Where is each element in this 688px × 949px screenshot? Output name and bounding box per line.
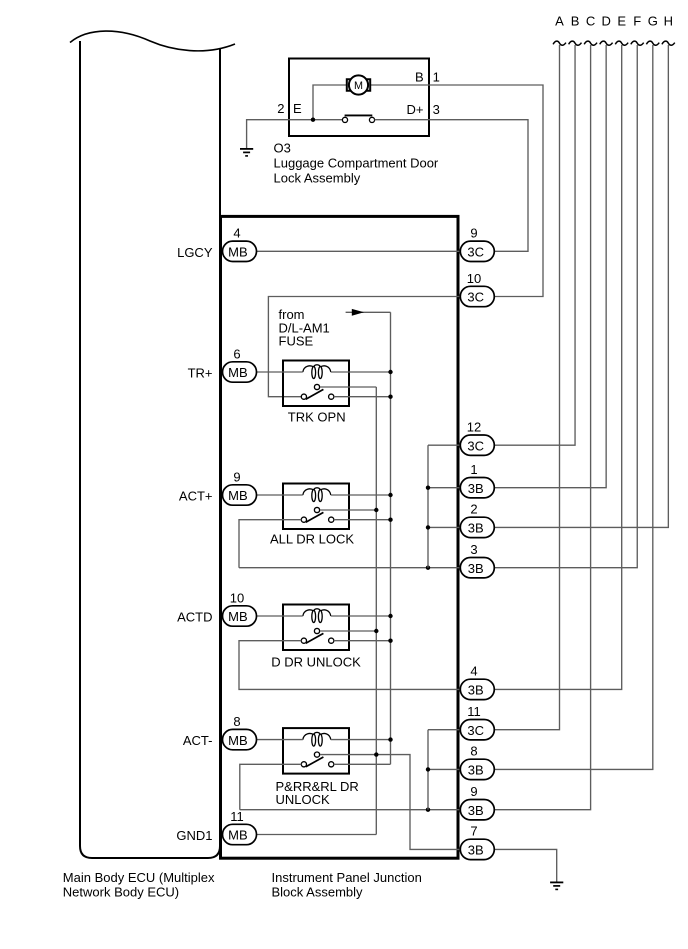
fuse feed vertical bus <box>390 312 392 764</box>
connector 3B pin 4 <box>460 679 494 699</box>
connector 3C pin 9 <box>460 241 494 261</box>
svg-text:3B: 3B <box>468 843 484 858</box>
svg-text:MB: MB <box>228 609 248 624</box>
wire pin D+ to connector 3C-9 <box>429 120 528 252</box>
connector 3C pin 12 <box>460 435 494 455</box>
wire lock output row to 3B-3 <box>239 567 461 569</box>
junction dot group/3B-2 <box>426 525 430 529</box>
break symbol on wire F <box>631 41 644 45</box>
svg-text:ACTD: ACTD <box>177 610 212 625</box>
wire 3B/3C pin to net F <box>494 45 637 568</box>
wire ALL DR LOCK output to 3B-3 row <box>239 520 302 568</box>
svg-text:12: 12 <box>467 420 481 435</box>
wire D DR UNLOCK right contact to fuse bus <box>334 640 391 642</box>
wire GND1 MB-11 to GND1 bus <box>257 834 377 836</box>
wire ACTD MB-10 to D DR UNLOCK coil <box>257 615 303 617</box>
wire TRK OPN pivot to GND1 bus <box>320 386 376 388</box>
break symbol on wire B <box>569 41 582 45</box>
relay D DR UNLOCK coil <box>303 609 331 623</box>
connector MB pin 9 (ACT+) <box>223 485 257 505</box>
wire motor left to node E <box>313 85 347 120</box>
relay D DR UNLOCK switch <box>301 628 334 643</box>
svg-text:MB: MB <box>228 245 248 260</box>
connector 3B pin 8 <box>460 759 494 779</box>
junction dot P&RR&RL pivot/GND1 <box>374 752 378 756</box>
svg-text:MB: MB <box>228 488 248 503</box>
wire 3B/3C pin to net C <box>494 45 590 810</box>
connector 3B pin 7 <box>460 839 494 859</box>
svg-text:G: G <box>648 14 658 29</box>
junction dot D DR UNLOCK pivot/GND1 <box>374 629 378 633</box>
svg-text:Luggage Compartment Door: Luggage Compartment Door <box>274 155 439 170</box>
wire P&RR&RL output to 3B-9 row <box>240 764 302 809</box>
wire P&RR&RL right contact to fuse bus <box>334 763 391 765</box>
wire group vertical to 3C-11 <box>428 729 461 731</box>
junction dot D DR UNLOCK coil/fuse <box>388 614 392 618</box>
connector MB pin 4 (LGCY) <box>223 241 257 261</box>
svg-text:10: 10 <box>467 271 481 286</box>
relay P&amp;RR&amp;RL DR UNLOCK coil <box>303 732 331 746</box>
junction dot group/3B-1 <box>426 486 430 490</box>
svg-text:B: B <box>415 69 424 84</box>
wire TR+ MB-6 to TRK OPN coil <box>257 371 303 373</box>
svg-text:3B: 3B <box>468 683 484 698</box>
wire P&RR&RL coil to fuse bus <box>331 739 391 741</box>
svg-text:8: 8 <box>470 744 477 759</box>
svg-text:4: 4 <box>233 226 240 241</box>
connector 3B pin 9 <box>460 800 494 820</box>
svg-text:4: 4 <box>470 664 477 679</box>
svg-text:1: 1 <box>433 69 440 84</box>
svg-text:Main Body ECU (Multiplex: Main Body ECU (Multiplex <box>63 870 215 885</box>
svg-text:3C: 3C <box>467 290 484 305</box>
svg-text:ACT+: ACT+ <box>179 489 213 504</box>
wire 3B/3C pin to net D <box>494 45 606 488</box>
wire 3C-10 to TRK OPN relay contact <box>268 297 459 397</box>
wire D DR UNLOCK pivot to GND1 bus <box>320 630 376 632</box>
wire ALL DR LOCK coil to fuse bus <box>331 494 391 496</box>
relay ALL DR LOCK coil <box>303 488 331 502</box>
wire 3B/3C pin to net B <box>494 45 575 445</box>
junction dot ALL DR LOCK pivot/GND1 <box>374 508 378 512</box>
svg-text:E: E <box>617 14 626 29</box>
svg-text:Lock Assembly: Lock Assembly <box>274 170 361 185</box>
svg-text:3B: 3B <box>468 521 484 536</box>
GND1 bus vertical <box>375 387 377 835</box>
wire D DR UNLOCK output to 3B-4 <box>239 641 461 690</box>
svg-text:GND1: GND1 <box>176 828 212 843</box>
junction dot TRK OPN contact/fuse <box>388 395 392 399</box>
svg-text:D DR UNLOCK: D DR UNLOCK <box>271 654 361 669</box>
connector MB pin 8 (ACT-) <box>223 729 257 749</box>
connector MB pin 10 (ACTD) <box>223 606 257 626</box>
wire 3B/3C pin to net A <box>494 45 559 730</box>
svg-text:3: 3 <box>470 542 477 557</box>
wire motor to pin B inside box <box>370 84 429 86</box>
ground symbol at lock assembly <box>240 149 253 156</box>
svg-text:3: 3 <box>433 102 440 117</box>
svg-text:Instrument Panel Junction: Instrument Panel Junction <box>272 870 422 885</box>
junction dot ALL DR LOCK coil/fuse <box>388 493 392 497</box>
break symbol on wire H <box>662 41 675 45</box>
relay TRK OPN switch <box>301 384 334 399</box>
junction dot lock output row <box>426 566 430 570</box>
svg-text:3B: 3B <box>468 481 484 496</box>
relay P&amp;RR&amp;RL DR UNLOCK switch <box>301 752 334 767</box>
wire 3B/3C pin to net E <box>494 45 621 689</box>
junction dot group/3B-8 <box>426 767 430 771</box>
wire TRK OPN coil to fuse bus <box>331 371 391 373</box>
svg-text:3C: 3C <box>467 723 484 738</box>
connector 3C pin 10 <box>460 286 494 306</box>
svg-text:TRK OPN: TRK OPN <box>288 409 346 424</box>
chassis ground symbol bottom <box>550 882 563 889</box>
connector 3B pin 3 <box>460 558 494 578</box>
break symbol on wire A <box>553 41 566 45</box>
wire pin E to ground <box>247 120 289 149</box>
luggage door courtesy switch <box>342 115 374 122</box>
main body ECU outline (wavy-top box) <box>80 41 220 858</box>
break symbol on wire D <box>600 41 613 45</box>
relay TRK OPN coil <box>303 365 331 379</box>
wire P&RR&RL pivot to 3B-7 <box>320 755 461 850</box>
wire 3B/3C pin to net G <box>494 45 653 769</box>
wire ALL DR LOCK pivot to GND1 bus <box>320 509 376 511</box>
node E junction dot <box>311 118 315 122</box>
junction dot D DR UNLOCK contact/fuse <box>388 639 392 643</box>
wire ACT- MB-8 to P&RR&RL coil <box>257 739 303 741</box>
svg-text:9: 9 <box>470 784 477 799</box>
svg-text:3B: 3B <box>468 763 484 778</box>
svg-text:3B: 3B <box>468 803 484 818</box>
svg-text:2: 2 <box>470 502 477 517</box>
svg-text:3B: 3B <box>468 561 484 576</box>
relay TRK OPN box <box>283 361 349 407</box>
svg-text:9: 9 <box>233 469 240 484</box>
svg-text:C: C <box>586 14 595 29</box>
svg-text:B: B <box>571 14 580 29</box>
luggage compartment door lock assembly box O3 <box>289 59 429 137</box>
wire group vertical to 3B-2 <box>428 526 461 528</box>
svg-text:M: M <box>354 80 363 92</box>
svg-text:FUSE: FUSE <box>279 334 314 349</box>
relay ALL DR LOCK box <box>283 484 349 530</box>
svg-text:7: 7 <box>470 824 477 839</box>
wire group vertical to 3B-1 <box>428 487 461 489</box>
svg-text:UNLOCK: UNLOCK <box>276 792 331 807</box>
svg-text:6: 6 <box>233 346 240 361</box>
wire pin B to connector 3C-10 <box>429 85 543 297</box>
unlock output group vertical <box>427 730 429 810</box>
svg-text:3C: 3C <box>467 438 484 453</box>
instrument panel junction block outline <box>221 216 459 858</box>
wire node E row inside box <box>289 119 342 121</box>
wire switch to pin D+ <box>375 119 429 121</box>
svg-text:2: 2 <box>277 101 284 116</box>
lock output group vertical <box>427 445 429 568</box>
break symbol on wire C <box>584 41 597 45</box>
wire 3B-7 to chassis ground <box>494 849 556 882</box>
svg-text:11: 11 <box>467 704 481 719</box>
wire ALL DR LOCK right contact to fuse bus <box>334 519 391 521</box>
connector 3B pin 1 <box>460 478 494 498</box>
svg-text:O3: O3 <box>274 140 291 155</box>
svg-text:8: 8 <box>233 714 240 729</box>
svg-text:1: 1 <box>470 462 477 477</box>
svg-text:TR+: TR+ <box>188 366 213 381</box>
junction dot TRK OPN coil/fuse <box>388 370 392 374</box>
relay P&amp;RR&amp;RL DR UNLOCK box <box>283 728 349 774</box>
motor M in lock assembly <box>347 75 370 94</box>
svg-text:LGCY: LGCY <box>177 245 213 260</box>
connector MB pin 6 (TR+) <box>223 362 257 382</box>
wire unlock output row to 3B-9 <box>240 809 461 811</box>
wire ACT+ MB-9 to ALL DR LOCK coil <box>257 494 303 496</box>
connector 3C pin 11 <box>460 720 494 740</box>
wire group vertical to 3C-12 <box>428 444 461 446</box>
junction dot P&RR&RL coil/fuse <box>388 737 392 741</box>
svg-text:A: A <box>555 14 564 29</box>
svg-text:MB: MB <box>228 365 248 380</box>
svg-text:F: F <box>633 14 641 29</box>
svg-text:E: E <box>293 101 302 116</box>
junction dot unlock output row <box>426 808 430 812</box>
relay D DR UNLOCK box <box>283 605 349 651</box>
wire D DR UNLOCK coil to fuse bus <box>331 615 391 617</box>
connector 3B pin 2 <box>460 517 494 537</box>
junction dot ALL DR LOCK contact/fuse <box>388 518 392 522</box>
svg-text:H: H <box>664 14 673 29</box>
svg-text:3C: 3C <box>467 245 484 260</box>
connector MB pin 11 (GND1) <box>223 824 257 844</box>
wire LGCY row MB-4 to 3C-9 <box>257 250 460 252</box>
break symbol on wire G <box>646 41 659 45</box>
svg-text:MB: MB <box>228 828 248 843</box>
svg-text:Block Assembly: Block Assembly <box>272 885 364 900</box>
svg-text:D: D <box>601 14 610 29</box>
break symbol on wire E <box>615 41 628 45</box>
wire TRK OPN right contact to fuse bus <box>334 396 391 398</box>
wire group vertical to 3B-8 <box>428 768 461 770</box>
svg-text:9: 9 <box>470 226 477 241</box>
svg-text:D+: D+ <box>407 102 424 117</box>
svg-text:ACT-: ACT- <box>183 733 213 748</box>
svg-text:ALL DR LOCK: ALL DR LOCK <box>270 532 354 547</box>
main body ECU wavy top edge <box>70 31 235 51</box>
svg-text:10: 10 <box>230 590 244 605</box>
wire from D/L-AM1 fuse feed (arrow) <box>346 309 391 316</box>
svg-text:Network Body ECU): Network Body ECU) <box>63 885 179 900</box>
relay ALL DR LOCK switch <box>301 507 334 522</box>
wire 3B/3C pin to net H <box>494 45 668 527</box>
svg-text:MB: MB <box>228 733 248 748</box>
svg-text:11: 11 <box>230 809 244 824</box>
